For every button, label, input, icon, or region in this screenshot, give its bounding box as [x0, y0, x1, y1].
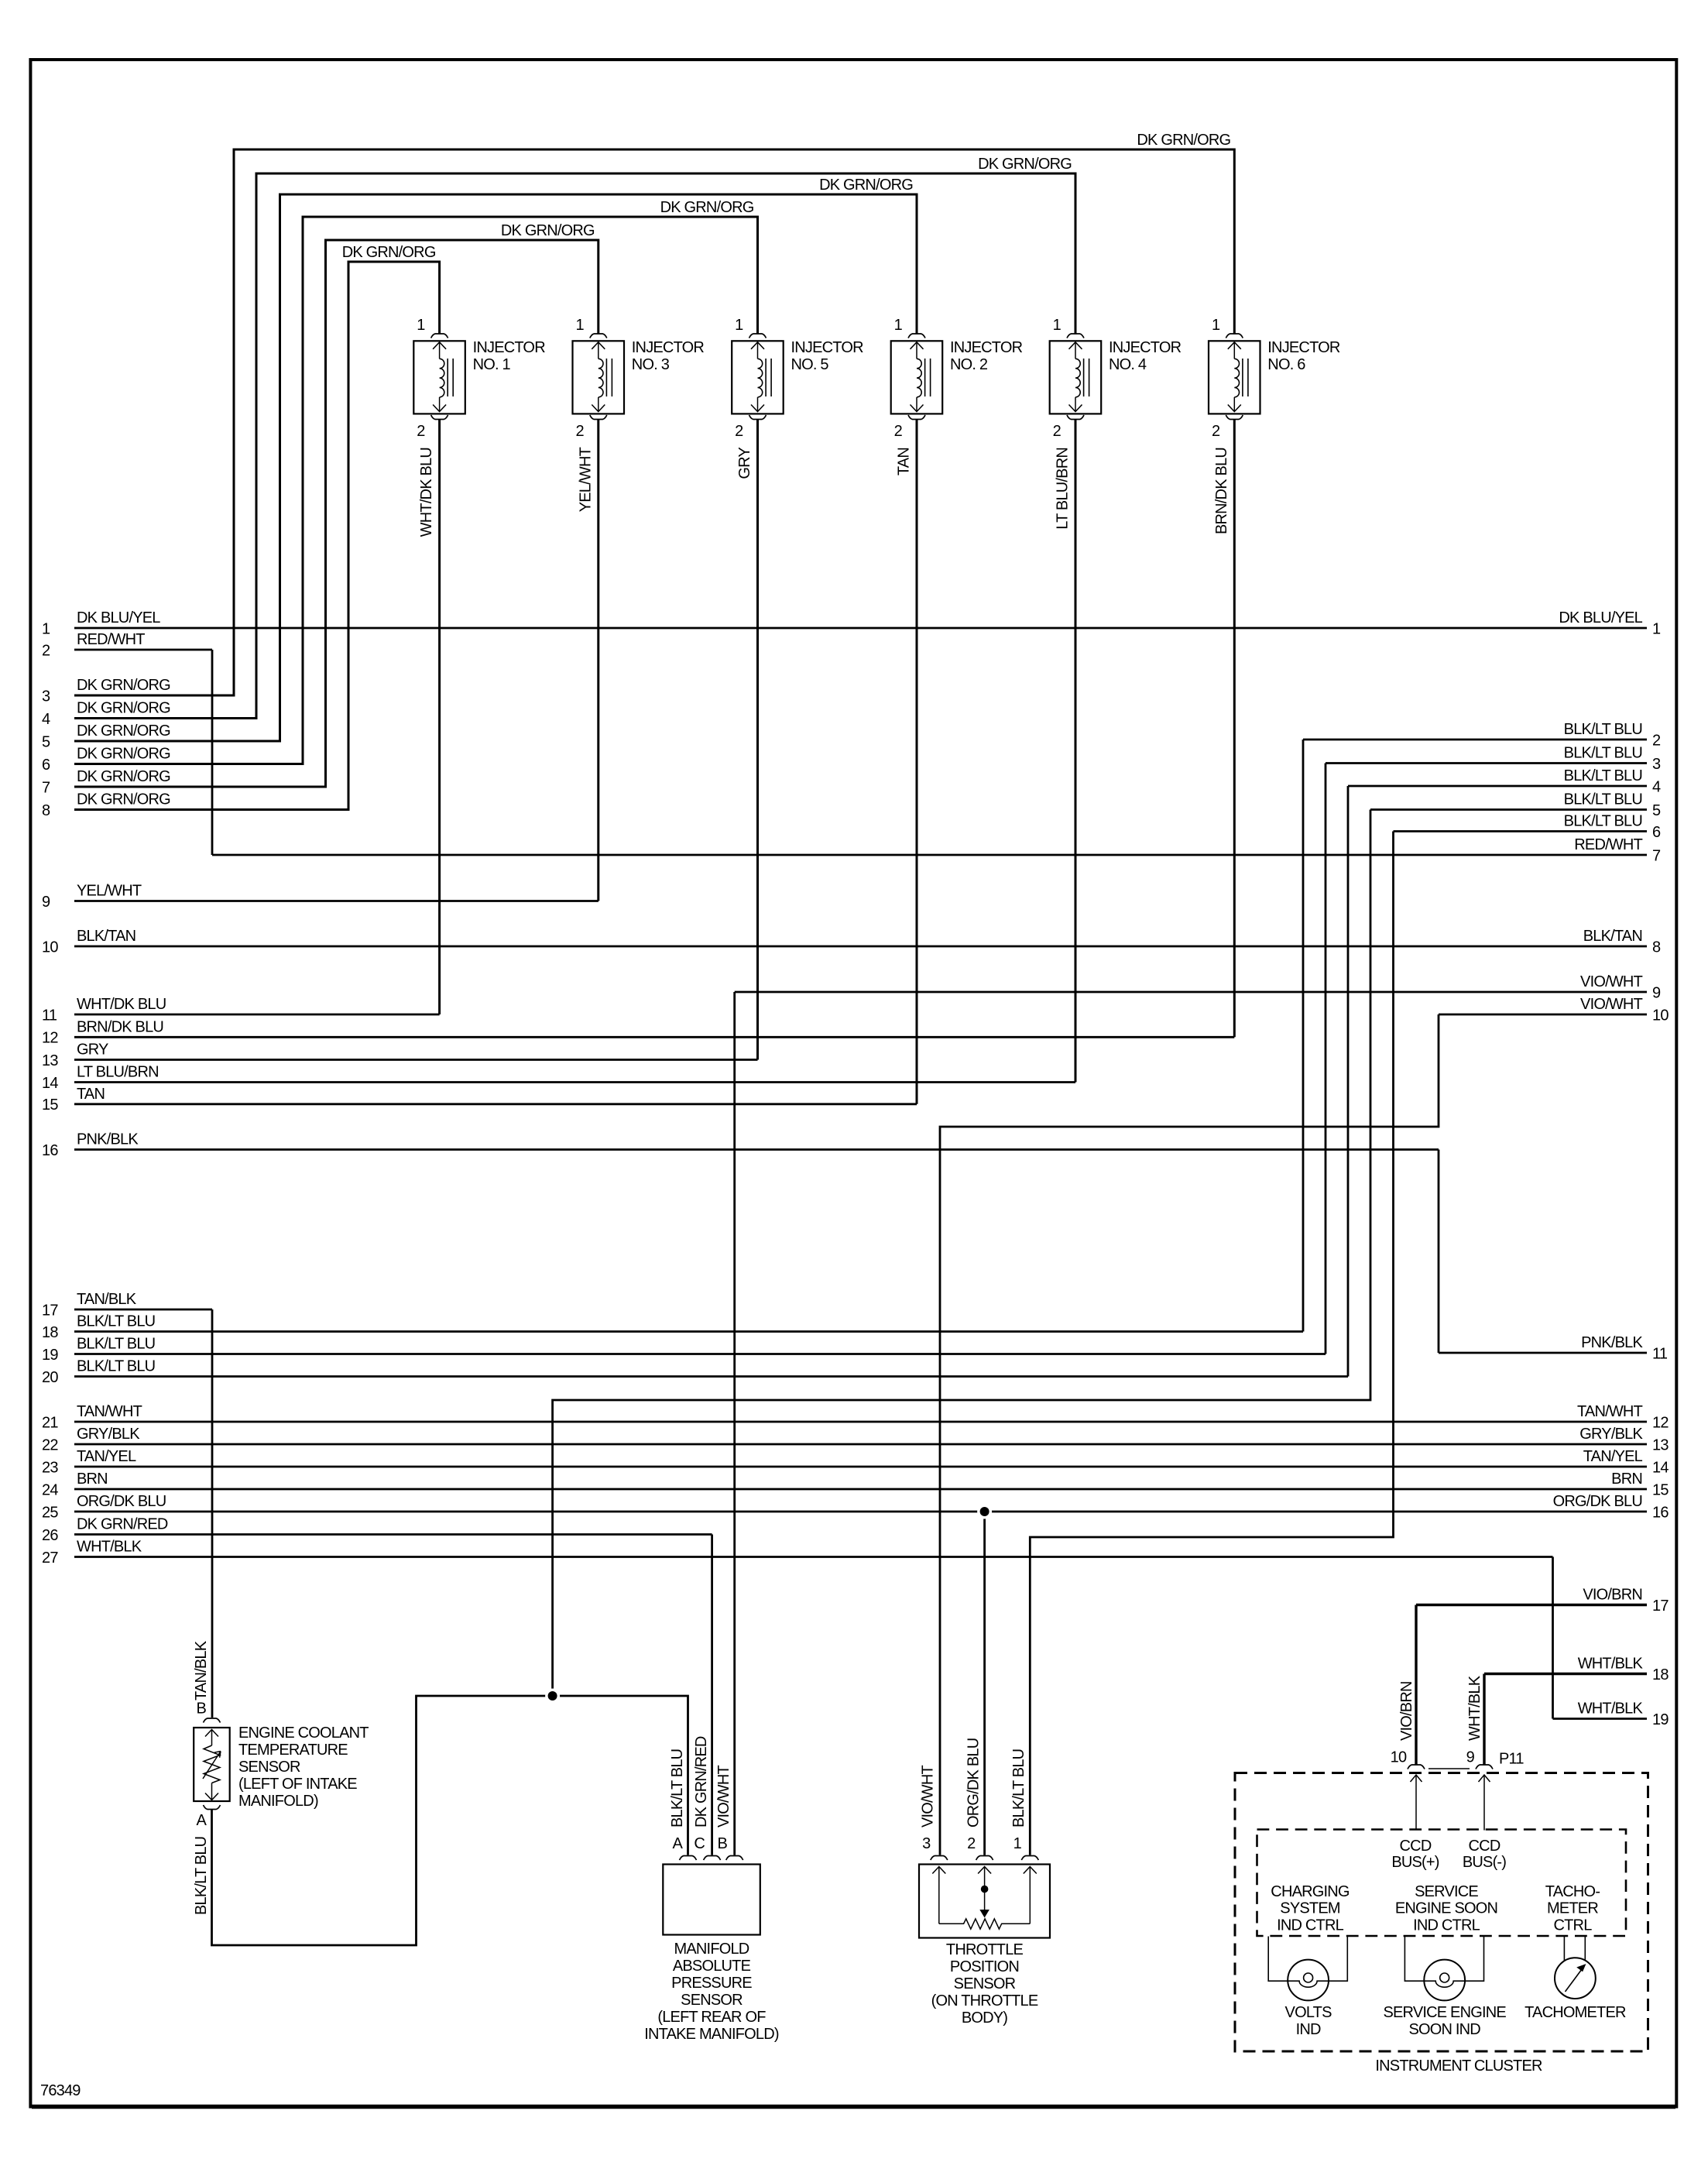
svg-text:BRN: BRN — [77, 1471, 108, 1488]
svg-text:LT BLU/BRN: LT BLU/BRN — [77, 1064, 159, 1081]
svg-text:DK GRN/ORG: DK GRN/ORG — [1137, 132, 1230, 149]
svg-text:DK GRN/ORG: DK GRN/ORG — [77, 677, 170, 694]
svg-text:THROTTLE: THROTTLE — [946, 1941, 1024, 1958]
svg-text:1: 1 — [1013, 1835, 1022, 1852]
connector at injector 1 pin 1 — [431, 334, 448, 338]
wire VIO/BRN right pin 17 to cluster pin 10 — [1415, 1605, 1417, 1765]
connector at injector 3 pin 2 — [590, 415, 607, 420]
svg-text:WHT/DK BLU: WHT/DK BLU — [418, 448, 435, 537]
svg-text:TAN/BLK: TAN/BLK — [77, 1291, 137, 1308]
svg-text:SERVICE: SERVICE — [1415, 1883, 1478, 1900]
injector 6 coil — [1234, 359, 1239, 397]
svg-text:CCD: CCD — [1400, 1838, 1432, 1855]
svg-text:SENSOR: SENSOR — [681, 1992, 743, 2009]
wire DK BLU/YEL left pin 1 row — [74, 627, 1647, 630]
injector 2 internal arrow up — [911, 342, 924, 349]
wire GRY/BLK left pin 22 row — [74, 1443, 1647, 1446]
svg-text:VIO/WHT: VIO/WHT — [1580, 996, 1643, 1013]
svg-text:GRY/BLK: GRY/BLK — [1579, 1426, 1643, 1443]
svg-text:BLK/TAN: BLK/TAN — [77, 928, 135, 945]
svg-text:DK GRN/ORG: DK GRN/ORG — [77, 722, 170, 740]
svg-text:DK GRN/ORG: DK GRN/ORG — [978, 156, 1072, 173]
instrument cluster dashed box — [1235, 1773, 1648, 2052]
svg-text:BLK/LT BLU: BLK/LT BLU — [1564, 813, 1642, 830]
TPS internal wiper arrow pin 2 — [978, 1867, 991, 1874]
service engine soon indicator bulb — [1424, 1960, 1465, 2001]
svg-text:CHARGING: CHARGING — [1271, 1883, 1350, 1900]
svg-text:INJECTOR: INJECTOR — [791, 339, 864, 356]
svg-text:10: 10 — [42, 939, 58, 956]
svg-text:TAN/WHT: TAN/WHT — [77, 1403, 142, 1420]
svg-text:2: 2 — [1053, 423, 1061, 440]
injector 3 core bars — [605, 359, 607, 396]
cluster inner dashed box — [1257, 1830, 1627, 1937]
svg-text:MANIFOLD: MANIFOLD — [674, 1941, 749, 1958]
svg-text:INJECTOR: INJECTOR — [1267, 339, 1340, 356]
svg-text:P11: P11 — [1499, 1751, 1524, 1768]
svg-text:GRY: GRY — [736, 448, 753, 479]
connector at TPS pin 2 — [976, 1856, 993, 1861]
svg-text:TAN: TAN — [77, 1086, 105, 1103]
injector 3 coil — [598, 359, 603, 397]
svg-text:DK BLU/YEL: DK BLU/YEL — [77, 609, 160, 626]
svg-text:1: 1 — [1652, 620, 1661, 637]
injector 6 core bars — [1242, 359, 1243, 396]
ECT sensor internal arrow down — [211, 1783, 213, 1800]
svg-text:2: 2 — [575, 423, 584, 440]
svg-text:YEL/WHT: YEL/WHT — [577, 447, 594, 512]
wire WHT/BLK left pin 27 to right pin 19 — [1552, 1557, 1554, 1719]
svg-text:BUS(-): BUS(-) — [1463, 1854, 1506, 1871]
svg-text:GRY/BLK: GRY/BLK — [77, 1426, 140, 1443]
wire PNK/BLK right pin 11 row — [1439, 1352, 1647, 1354]
wire WHT/BLK right pin 18 row — [1484, 1673, 1647, 1675]
svg-text:3: 3 — [42, 688, 50, 705]
connector at injector 2 pin 2 — [908, 415, 925, 420]
svg-text:NO. 5: NO. 5 — [791, 356, 829, 373]
svg-text:1: 1 — [1053, 317, 1061, 334]
connector at MAP sensor pin C — [704, 1856, 721, 1861]
svg-text:1: 1 — [575, 317, 584, 334]
injector 3 internal arrow down — [598, 397, 599, 412]
wire VIO/WHT right pin 10 row — [1439, 1014, 1647, 1016]
wire ORG/DK BLU junction to TPS pin 2 — [983, 1512, 986, 1855]
wire BLK/LT BLU right pin 5 to ground bus — [553, 810, 1370, 1697]
wire TAN left pin 15 row — [74, 1103, 917, 1105]
svg-text:INSTRUMENT CLUSTER: INSTRUMENT CLUSTER — [1375, 2057, 1542, 2075]
svg-text:4: 4 — [42, 711, 50, 728]
connector at MAP sensor pin B — [726, 1856, 743, 1861]
tachometer gauge — [1555, 1958, 1596, 1999]
TPS internal arrow pin 3 — [932, 1867, 945, 1874]
svg-text:BLK/LT BLU: BLK/LT BLU — [1564, 721, 1642, 738]
svg-text:NO. 3: NO. 3 — [632, 356, 670, 373]
svg-text:1: 1 — [894, 317, 903, 334]
svg-text:5: 5 — [42, 733, 50, 750]
wire BRN/DK BLU from injector 6 pin 2 — [1233, 420, 1236, 1038]
wire BLK/LT BLU vertical right pin 3 to left pin 19 — [1325, 764, 1327, 1354]
injector 2 internal arrow down — [916, 397, 917, 412]
wire WHT/BLK right pin 18 to cluster pin 9 — [1483, 1674, 1485, 1765]
svg-text:7: 7 — [1652, 847, 1661, 864]
injector 5 box — [732, 341, 784, 414]
injector 2 core bars — [924, 359, 926, 396]
svg-text:TAN: TAN — [896, 448, 913, 475]
svg-text:3: 3 — [922, 1835, 931, 1852]
svg-text:INJECTOR: INJECTOR — [1109, 339, 1182, 356]
wire DK GRN/RED left pin 26 to MAP sensor pin C — [711, 1535, 713, 1855]
ECT sensor internal arrow up — [205, 1730, 218, 1737]
injector 1 internal arrow down — [439, 397, 441, 412]
wire DK GRN/ORG net from left pin 7 to injector 3 pin 1 — [74, 240, 598, 787]
svg-text:CCD: CCD — [1469, 1838, 1501, 1855]
svg-text:BLK/TAN: BLK/TAN — [1583, 928, 1642, 945]
wire BLK/LT BLU right pin 5 row — [1370, 808, 1647, 811]
svg-text:TAN/YEL: TAN/YEL — [77, 1448, 136, 1465]
connector at cluster pin 10 — [1408, 1765, 1425, 1769]
svg-text:DK GRN/ORG: DK GRN/ORG — [77, 768, 170, 785]
svg-text:21: 21 — [42, 1414, 58, 1431]
svg-text:A: A — [672, 1835, 683, 1852]
wire BLK/TAN left pin 10 row — [74, 946, 1647, 948]
volts indicator bulb — [1288, 1960, 1329, 2001]
svg-text:BRN/DK BLU: BRN/DK BLU — [1213, 448, 1230, 534]
connector at cluster pin 9 — [1476, 1765, 1493, 1769]
MAP sensor box — [663, 1865, 760, 1935]
svg-text:TAN/WHT: TAN/WHT — [1577, 1403, 1643, 1420]
svg-text:2: 2 — [967, 1835, 976, 1852]
injector 3 internal arrow up — [592, 342, 605, 349]
svg-text:27: 27 — [42, 1550, 58, 1567]
svg-text:5: 5 — [1652, 802, 1661, 819]
injector 4 core bars — [1083, 359, 1085, 396]
svg-text:DK BLU/YEL: DK BLU/YEL — [1559, 609, 1642, 626]
svg-text:SENSOR: SENSOR — [954, 1975, 1016, 1992]
svg-text:DK GRN/ORG: DK GRN/ORG — [819, 177, 913, 194]
svg-text:POSITION: POSITION — [950, 1958, 1019, 1975]
connector at injector 5 pin 2 — [749, 415, 767, 420]
svg-text:9: 9 — [1466, 1749, 1475, 1766]
svg-text:WHT/DK BLU: WHT/DK BLU — [77, 996, 166, 1013]
svg-text:DK GRN/ORG: DK GRN/ORG — [77, 791, 170, 808]
wire GRY from injector 5 pin 2 — [756, 420, 759, 1060]
svg-text:6: 6 — [1652, 824, 1661, 841]
TPS internal arrow pin 1 — [1024, 1867, 1037, 1874]
svg-text:7: 7 — [42, 779, 50, 796]
svg-text:8: 8 — [42, 802, 50, 819]
svg-text:ABSOLUTE: ABSOLUTE — [673, 1958, 751, 1975]
svg-text:12: 12 — [1652, 1414, 1669, 1431]
svg-text:20: 20 — [42, 1369, 58, 1386]
svg-text:76349: 76349 — [40, 2082, 81, 2099]
wire DK GRN/ORG net from left pin 6 to injector 5 pin 1 — [74, 217, 758, 764]
svg-text:WHT/BLK: WHT/BLK — [77, 1539, 142, 1556]
wire BRN/DK BLU left pin 12 row — [74, 1036, 1234, 1038]
wire PNK/BLK left pin 16 to right pin 11 — [1438, 1150, 1440, 1354]
svg-text:BLK/LT BLU: BLK/LT BLU — [193, 1837, 210, 1915]
svg-text:MANIFOLD): MANIFOLD) — [238, 1793, 318, 1810]
svg-text:16: 16 — [1652, 1504, 1669, 1521]
injector 4 internal arrow up — [1069, 342, 1082, 349]
svg-text:BLK/LT BLU: BLK/LT BLU — [77, 1336, 155, 1353]
svg-text:ENGINE COOLANT: ENGINE COOLANT — [238, 1725, 369, 1742]
svg-text:BRN: BRN — [1611, 1471, 1642, 1488]
svg-text:17: 17 — [42, 1302, 58, 1319]
TPS box — [919, 1865, 1050, 1938]
svg-text:RED/WHT: RED/WHT — [1574, 836, 1642, 853]
wire BLK/LT BLU right pin 3 row — [1326, 762, 1647, 764]
svg-text:BLK/LT BLU: BLK/LT BLU — [77, 1358, 155, 1375]
wire WHT/BLK right pin 19 row — [1553, 1718, 1648, 1720]
wire TAN from injector 2 pin 2 — [916, 420, 918, 1104]
connector bar between cluster pins — [1428, 1768, 1470, 1769]
svg-text:NO. 6: NO. 6 — [1267, 356, 1305, 373]
wire RED/WHT left pin 2 row — [74, 649, 212, 651]
wire VIO/WHT right pin 9 row — [735, 991, 1647, 994]
connector at injector 2 pin 1 — [908, 334, 925, 338]
svg-text:BLK/LT BLU: BLK/LT BLU — [1564, 745, 1642, 762]
connector at injector 6 pin 2 — [1226, 415, 1243, 420]
svg-text:2: 2 — [42, 642, 50, 659]
svg-text:ENGINE SOON: ENGINE SOON — [1395, 1900, 1497, 1917]
wire DK GRN/ORG net from left pin 3 to injector 6 pin 1 — [74, 149, 1234, 695]
wire DK GRN/ORG net from left pin 4 to injector 4 pin 1 — [74, 173, 1075, 719]
connector at injector 3 pin 1 — [590, 334, 607, 338]
injector 6 box — [1209, 341, 1260, 414]
svg-text:VIO/BRN: VIO/BRN — [1398, 1681, 1415, 1741]
svg-text:2: 2 — [894, 423, 903, 440]
svg-text:11: 11 — [42, 1007, 57, 1024]
svg-text:YEL/WHT: YEL/WHT — [77, 883, 142, 900]
wire LT BLU/BRN left pin 14 row — [74, 1081, 1075, 1083]
svg-text:SENSOR: SENSOR — [238, 1759, 300, 1776]
svg-text:16: 16 — [42, 1142, 58, 1159]
injector 1 coil — [440, 359, 444, 397]
svg-text:15: 15 — [42, 1097, 58, 1114]
ECT sensor thermistor arrow — [203, 1752, 221, 1779]
wire RED/WHT right pin 7 row — [212, 854, 1647, 856]
svg-text:ORG/DK BLU: ORG/DK BLU — [1553, 1493, 1642, 1510]
svg-text:BODY): BODY) — [962, 2009, 1007, 2027]
wire WHT/BLK left pin 27 row — [74, 1556, 1553, 1558]
svg-text:2: 2 — [1212, 423, 1220, 440]
svg-text:6: 6 — [42, 757, 50, 774]
svg-text:IND CTRL: IND CTRL — [1413, 1917, 1480, 1934]
svg-text:14: 14 — [42, 1075, 58, 1092]
connector at injector 4 pin 2 — [1067, 415, 1084, 420]
svg-text:INTAKE MANIFOLD): INTAKE MANIFOLD) — [644, 2026, 779, 2043]
svg-text:WHT/BLK: WHT/BLK — [1578, 1656, 1644, 1673]
svg-text:1: 1 — [42, 620, 50, 637]
svg-text:IND CTRL: IND CTRL — [1277, 1917, 1344, 1934]
svg-text:13: 13 — [1652, 1436, 1669, 1453]
svg-text:TACHO-: TACHO- — [1545, 1883, 1600, 1900]
svg-text:19: 19 — [42, 1347, 58, 1364]
svg-text:METER: METER — [1547, 1900, 1598, 1917]
connector at MAP sensor pin A — [680, 1856, 697, 1861]
wire BRN left pin 24 row — [74, 1488, 1647, 1491]
svg-text:2: 2 — [735, 423, 743, 440]
injector 4 internal arrow down — [1075, 397, 1076, 412]
svg-text:B: B — [717, 1835, 727, 1852]
wire TAN/BLK left pin 17 to ECT sensor pin B — [211, 1309, 214, 1718]
svg-text:TAN/BLK: TAN/BLK — [193, 1640, 210, 1701]
svg-text:WHT/BLK: WHT/BLK — [1578, 1701, 1644, 1718]
svg-text:NO. 2: NO. 2 — [950, 356, 988, 373]
injector 4 coil — [1075, 359, 1080, 397]
svg-text:1: 1 — [417, 317, 425, 334]
svg-text:TAN/YEL: TAN/YEL — [1583, 1448, 1643, 1465]
svg-text:A: A — [196, 1812, 207, 1829]
wire BLK/LT BLU right pin 4 row — [1348, 785, 1647, 788]
svg-text:BRN/DK BLU: BRN/DK BLU — [77, 1018, 163, 1035]
svg-text:WHT/BLK: WHT/BLK — [1466, 1675, 1483, 1741]
svg-text:BLK/LT BLU: BLK/LT BLU — [1564, 767, 1642, 784]
svg-text:18: 18 — [1652, 1666, 1669, 1683]
wire VIO/BRN right pin 17 row — [1416, 1604, 1647, 1606]
cluster internal arrow CCD BUS(+) — [1411, 1775, 1422, 1782]
injector 2 coil — [917, 359, 921, 397]
cluster internal arrow CCD BUS(-) — [1479, 1775, 1490, 1782]
injector 4 box — [1050, 341, 1102, 414]
injector 1 box — [413, 341, 465, 414]
svg-text:BLK/LT BLU: BLK/LT BLU — [1010, 1749, 1027, 1828]
wire YEL/WHT from injector 3 pin 2 — [597, 420, 599, 901]
connector at injector 1 pin 2 — [431, 415, 448, 420]
svg-text:B: B — [196, 1701, 206, 1718]
svg-text:19: 19 — [1652, 1711, 1669, 1728]
svg-text:ORG/DK BLU: ORG/DK BLU — [965, 1738, 983, 1828]
wire TAN/WHT left pin 21 row — [74, 1421, 1647, 1423]
svg-text:13: 13 — [42, 1052, 58, 1069]
svg-text:18: 18 — [42, 1324, 58, 1341]
svg-text:DK GRN/RED: DK GRN/RED — [693, 1736, 710, 1828]
wire BLK/LT BLU vertical right pin 2 to left pin 18 — [1302, 740, 1305, 1332]
wire BLK/LT BLU left pin 20 row — [74, 1375, 1348, 1378]
wire WHT/DK BLU left pin 11 row — [74, 1014, 440, 1016]
connector at TPS pin 1 — [1021, 1856, 1038, 1861]
svg-text:TEMPERATURE: TEMPERATURE — [238, 1742, 348, 1759]
svg-text:23: 23 — [42, 1459, 58, 1476]
ECT sensor box — [194, 1728, 230, 1801]
svg-text:BUS(+): BUS(+) — [1391, 1854, 1439, 1871]
svg-text:VIO/WHT: VIO/WHT — [1580, 973, 1643, 990]
svg-text:NO. 1: NO. 1 — [473, 356, 511, 373]
wire YEL/WHT left pin 9 row — [74, 900, 598, 902]
injector 5 internal arrow down — [757, 397, 759, 412]
svg-text:SYSTEM: SYSTEM — [1280, 1900, 1340, 1917]
wire TAN/BLK left pin 17 row — [74, 1309, 212, 1311]
injector 5 core bars — [765, 359, 767, 396]
junction ORG/DK BLU to TPS — [977, 1505, 992, 1519]
wire DK GRN/ORG net from left pin 5 to injector 2 pin 1 — [74, 194, 917, 741]
svg-text:SOON IND: SOON IND — [1408, 2021, 1480, 2038]
svg-text:BLK/LT BLU: BLK/LT BLU — [669, 1749, 686, 1828]
injector 1 internal arrow up — [433, 342, 446, 349]
wire ORG/DK BLU left pin 25 row — [74, 1511, 1647, 1513]
svg-text:TACHOMETER: TACHOMETER — [1525, 2004, 1626, 2021]
svg-text:17: 17 — [1652, 1598, 1669, 1615]
injector 6 internal arrow down — [1233, 397, 1235, 412]
wire BLK/LT BLU right pin 2 row — [1303, 739, 1647, 741]
svg-text:PRESSURE: PRESSURE — [671, 1975, 752, 1992]
svg-text:BLK/LT BLU: BLK/LT BLU — [77, 1313, 155, 1330]
wire LT BLU/BRN from injector 4 pin 2 — [1075, 420, 1077, 1083]
svg-text:8: 8 — [1652, 939, 1661, 956]
svg-text:VOLTS: VOLTS — [1285, 2004, 1332, 2021]
svg-text:DK GRN/ORG: DK GRN/ORG — [501, 222, 595, 239]
svg-text:3: 3 — [1652, 756, 1661, 773]
svg-text:VIO/WHT: VIO/WHT — [715, 1765, 732, 1828]
svg-text:LT BLU/BRN: LT BLU/BRN — [1055, 448, 1072, 530]
injector 3 box — [573, 341, 625, 414]
svg-text:DK GRN/ORG: DK GRN/ORG — [77, 700, 170, 717]
svg-text:NO. 4: NO. 4 — [1109, 356, 1147, 373]
wire WHT/DK BLU from injector 1 pin 2 — [438, 420, 441, 1015]
svg-text:IND: IND — [1296, 2021, 1321, 2038]
svg-text:DK GRN/ORG: DK GRN/ORG — [660, 199, 754, 216]
injector 6 internal arrow up — [1228, 342, 1241, 349]
TPS resistor — [939, 1919, 1031, 1929]
wire PNK/BLK left pin 16 row — [74, 1148, 1439, 1151]
injector 5 coil — [758, 359, 763, 397]
svg-text:INJECTOR: INJECTOR — [473, 339, 546, 356]
svg-text:15: 15 — [1652, 1481, 1669, 1498]
svg-text:1: 1 — [1212, 317, 1220, 334]
wire TAN/YEL left pin 23 row — [74, 1466, 1647, 1468]
svg-text:(LEFT REAR OF: (LEFT REAR OF — [657, 2009, 766, 2026]
wire BLK/LT BLU right pin 6 row — [1394, 830, 1648, 832]
connector at injector 4 pin 1 — [1067, 334, 1084, 338]
wire BLK/LT BLU left pin 19 row — [74, 1353, 1326, 1355]
svg-text:C: C — [694, 1835, 705, 1852]
svg-text:10: 10 — [1391, 1749, 1407, 1766]
svg-text:11: 11 — [1652, 1345, 1668, 1362]
svg-text:14: 14 — [1652, 1459, 1669, 1476]
connector at ECT sensor pin B — [204, 1718, 221, 1723]
svg-text:26: 26 — [42, 1527, 58, 1544]
connector at ECT sensor pin A — [204, 1805, 221, 1810]
svg-text:PNK/BLK: PNK/BLK — [1581, 1334, 1643, 1351]
svg-text:2: 2 — [417, 423, 425, 440]
wire DK GRN/RED left pin 26 row — [74, 1533, 712, 1536]
svg-text:INJECTOR: INJECTOR — [950, 339, 1023, 356]
svg-text:1: 1 — [735, 317, 743, 334]
svg-text:9: 9 — [1652, 984, 1661, 1001]
wire BLK/LT BLU right pin 6 to TPS pin 1 — [1030, 832, 1393, 1855]
wire VIO/WHT right pin 10 to TPS pin 3 — [940, 1014, 1439, 1855]
junction BLK/LT BLU ground bus — [545, 1689, 560, 1704]
svg-text:DK GRN/ORG: DK GRN/ORG — [77, 746, 170, 763]
connector at injector 5 pin 1 — [749, 334, 767, 338]
wire BLK/LT BLU vertical right pin 4 to left pin 20 — [1347, 786, 1350, 1377]
svg-text:INJECTOR: INJECTOR — [632, 339, 705, 356]
svg-text:22: 22 — [42, 1436, 58, 1453]
svg-text:(ON THROTTLE: (ON THROTTLE — [931, 1992, 1038, 2009]
ECT sensor resistor zigzag — [204, 1745, 220, 1783]
svg-text:12: 12 — [42, 1030, 58, 1047]
injector 2 box — [891, 341, 943, 414]
connector at injector 6 pin 1 — [1226, 334, 1243, 338]
svg-text:SERVICE ENGINE: SERVICE ENGINE — [1383, 2004, 1506, 2021]
wire DK GRN/ORG net from left pin 8 to injector 1 pin 1 — [74, 262, 440, 810]
connector at TPS pin 3 — [931, 1856, 948, 1861]
svg-text:VIO/BRN: VIO/BRN — [1583, 1587, 1642, 1604]
wire to tachometer gauge — [1563, 1937, 1565, 1961]
wire VIO/WHT right pin 9 to MAP sensor pin B — [733, 992, 736, 1855]
wire GRY left pin 13 row — [74, 1059, 758, 1061]
svg-text:BLK/LT BLU: BLK/LT BLU — [1564, 791, 1642, 808]
